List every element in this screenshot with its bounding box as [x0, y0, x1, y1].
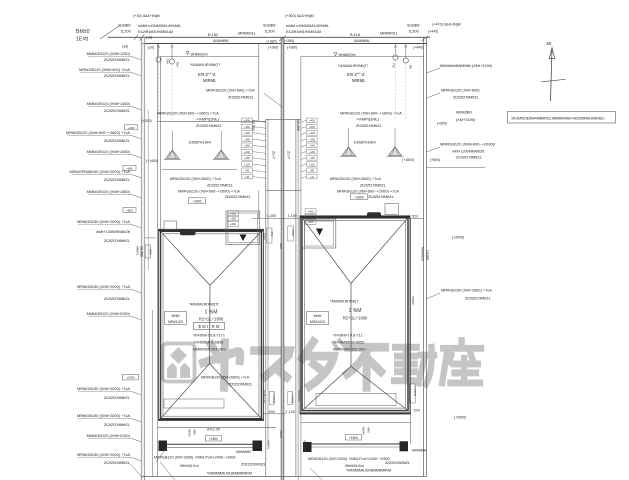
- svg-text:9tM5LMtZ: 9tM5LMtZ: [262, 390, 266, 404]
- svg-text:MR#GB120 (XM+600) +7cA: MR#GB120 (XM+600) +7cA: [206, 88, 255, 93]
- svg-text:Zt2tZt2XtMttZL: Zt2tZt2XtMttZL: [228, 383, 253, 387]
- slope fan symbol 3: [348, 128, 350, 152]
- svg-text:i&I&$M: i&I&$M: [118, 23, 131, 28]
- svg-text:5,200: 5,200: [121, 29, 132, 34]
- svg-text:t9trtMi1/1m: t9trtMi1/1m: [180, 464, 199, 468]
- svg-text:9trtMi2(0m: 9trtMi2(0m: [339, 53, 356, 57]
- svg-text:10,300: 10,300: [251, 120, 255, 131]
- svg-text:$ M t t R M: $ M t t R M: [198, 324, 219, 329]
- svg-text:Zt2tZt2XtMttZL: Zt2tZt2XtMttZL: [104, 296, 131, 301]
- svg-text:+1800: +1800: [193, 199, 202, 203]
- svg-text:+160: +160: [309, 156, 315, 160]
- svg-text:(+30) i&I&+tNjM: (+30) i&I&+tNjM: [133, 14, 160, 18]
- svg-text:MRt#GB150 (XMt+2000) +7cA: MRt#GB150 (XMt+2000) +7cA: [77, 219, 130, 224]
- ramp1 west inner line: [267, 119, 269, 443]
- svg-text:M#t: M#t: [176, 62, 180, 67]
- building 1 outline with hip roof: [159, 229, 264, 420]
- svg-text:+%MPt(ZML): +%MPt(ZML): [356, 117, 380, 122]
- building 2 setback box: [307, 312, 329, 325]
- svg-text:MRt#GB150 (XMt+2600) +7cA: MRt#GB150 (XMt+2600) +7cA: [77, 413, 130, 418]
- svg-text:(±0): (±0): [148, 46, 154, 50]
- svg-text:R2+GL+1800: R2+GL+1800: [343, 316, 368, 321]
- fence strip plot1: [167, 443, 254, 445]
- svg-text:t9trtMi1/4m: t9trtMi1/4m: [345, 464, 364, 468]
- svg-text:(+280): (+280): [284, 39, 294, 43]
- svg-text:Zt2tZt2XtMttZL: Zt2tZt2XtMttZL: [104, 108, 131, 113]
- svg-text:%%ttNt<t 9.8-711: %%ttNt<t 9.8-711: [333, 334, 363, 338]
- utility meter symbol 4: [403, 58, 408, 63]
- building 1 car blob: [180, 229, 196, 235]
- svg-text:+240: +240: [309, 144, 315, 148]
- svg-text:+200: +200: [230, 222, 237, 226]
- boxed +1800 plot1 mid: [189, 198, 206, 204]
- north arrow: [551, 49, 553, 102]
- svg-text:+1800: +1800: [355, 195, 364, 199]
- plot1 west inner line: [157, 44, 159, 477]
- boxed +1800 plot1 bottom: [206, 436, 222, 442]
- svg-text:+40: +40: [310, 175, 315, 179]
- right leader 3: [427, 147, 441, 152]
- ramp1 level label column: [242, 118, 253, 123]
- svg-text:mMt# m0MM0M4-6t%MtL: mMt# m0MM0M4-6t%MtL: [286, 24, 329, 28]
- plot2 west setback line: [300, 57, 302, 477]
- svg-text:%%ttMtMt 6-6855: %%ttMtMt 6-6855: [193, 341, 223, 345]
- svg-text:Zt2tZt2XtMttZL: Zt2tZt2XtMttZL: [104, 422, 131, 427]
- dimension line between plots: [252, 218, 310, 220]
- watermark Yamada Fudosan logo and lettering: [163, 344, 195, 382]
- svg-text:Mt#M: Mt#M: [361, 427, 365, 435]
- svg-text:(±0): (±0): [122, 45, 128, 49]
- svg-text:E42tR1tM1t%MiI&I&t: E42tR1tM1t%MiI&I&t: [286, 30, 322, 34]
- svg-text:MR#GB120 (XM+600~+2000) +7cA: MR#GB120 (XM+600~+2000) +7cA: [178, 188, 240, 193]
- svg-text:(+1800): (+1800): [290, 394, 294, 404]
- svg-text:+700: +700: [270, 230, 274, 237]
- svg-text:#MtM: #MtM: [279, 430, 283, 438]
- svg-text:+%MPt(ZML): +%MPt(ZML): [196, 117, 220, 122]
- svg-text:+200: +200: [244, 150, 250, 154]
- boxed vertical label v700: [267, 228, 272, 243]
- svg-text:MR#GB120 (XM+600~+2000) +7cA: MR#GB120 (XM+600~+2000) +7cA: [337, 188, 399, 193]
- svg-text:i&I&$M: i&I&$M: [263, 23, 276, 28]
- svg-text:E#t Z^°-Z: E#t Z^°-Z: [198, 72, 216, 77]
- svg-text:*MMtMtMtLt0t)tMtMttMtRM: *MMtMtMtLt0t)tMtMttMtRM: [207, 471, 252, 475]
- plot1 lower area line: [158, 426, 276, 428]
- utility meter symbol 1: [156, 57, 161, 62]
- plot1 terrace line: [162, 169, 237, 171]
- plot1 parking south line: [158, 120, 266, 122]
- setback triangle mark plot2: [334, 53, 337, 57]
- svg-text:Zt2tZt2XtMttZL: Zt2tZt2XtMttZL: [465, 296, 492, 301]
- svg-text:+280: +280: [309, 137, 315, 141]
- building 1 porch level labels: [228, 211, 239, 216]
- svg-text:10,300: 10,300: [425, 250, 429, 260]
- boxed +1800 plot2 mid: [351, 194, 368, 200]
- svg-text:(+200): (+200): [142, 119, 152, 123]
- svg-text:i&I&tMt5tL: i&I&tMt5tL: [354, 39, 370, 43]
- svg-text:B.118: B.118: [350, 32, 360, 37]
- vertical boxed label b2 east: [409, 384, 415, 403]
- plot2 east fence line: [410, 218, 412, 444]
- svg-text:MMt#tsNtMtMMttt (XMt+3190): MMt#tsNtMtMMttt (XMt+3190): [440, 63, 493, 68]
- svg-text:2 %M: 2 %M: [349, 308, 362, 314]
- svg-text:Mt: Mt: [547, 41, 553, 46]
- svg-text:+80: +80: [310, 169, 315, 173]
- svg-text:+240: +240: [244, 144, 250, 148]
- svg-text:MRt#GB120 (XMt+600~+1600) +7cA: MRt#GB120 (XMt+600~+1600) +7cA: [66, 130, 130, 135]
- svg-text:MR#GB120 (XM+2020) +MMLt7cA+24: MR#GB120 (XM+2020) +MMLt7cA+2400~+2800: [308, 457, 390, 461]
- svg-text:*i&I&tMLtRXMt(T!: *i&I&tMLtRXMt(T!: [190, 63, 220, 67]
- svg-text:+1800: +1800: [291, 228, 295, 236]
- svg-text:73Kt: 73Kt: [166, 58, 170, 64]
- building 1 setback box: [165, 312, 187, 325]
- ramp top line: [266, 118, 301, 120]
- svg-text:Mt#M: Mt#M: [187, 429, 191, 437]
- svg-text:MMt#GB120 (XMt+1250): MMt#GB120 (XMt+1250): [87, 51, 131, 56]
- svg-text:*4ttMMtLRtXMt(T: *4ttMMtLRtXMt(T: [330, 300, 359, 304]
- boxed vertical label v1800: [288, 226, 293, 241]
- svg-text:(±0): (±0): [146, 36, 152, 40]
- plot1 gb label a leader: [264, 94, 283, 108]
- svg-text:MRt#GB150 (XMt+2200) +7cA: MRt#GB150 (XMt+2200) +7cA: [77, 452, 130, 457]
- svg-text:+360: +360: [309, 125, 315, 129]
- svg-text:*4ttMMtLRtXMt(Tt: *4ttMMtLRtXMt(Tt: [189, 303, 219, 307]
- svg-text:(+1800): (+1800): [413, 387, 417, 397]
- svg-text:Zt2tZt2XtMttZL: Zt2tZt2XtMttZL: [453, 95, 480, 100]
- boxed +1800 plot2 bottom: [346, 435, 362, 441]
- svg-text:Zt2tZt2XtMttZL: Zt2tZt2XtMttZL: [104, 238, 131, 243]
- svg-text:Zt2tZt2XtMttZL: Zt2tZt2XtMttZL: [385, 461, 410, 465]
- svg-text:Zo-7: Zo-7: [272, 151, 276, 159]
- svg-text:+320: +320: [244, 131, 250, 135]
- svg-text:(+800): (+800): [430, 158, 440, 162]
- svg-text:+300: +300: [128, 126, 135, 130]
- svg-text:MMtMtM5L: MMtMtM5L: [420, 247, 424, 262]
- svg-text:+1450: +1450: [126, 376, 135, 380]
- svg-text:(+440): (+440): [428, 30, 438, 34]
- building 1 entry porch box: [226, 211, 260, 245]
- svg-text:wMt+1200MMAtttZtt: wMt+1200MMAtttZtt: [452, 149, 484, 153]
- svg-text:Zt2tZt2XtMttZL: Zt2tZt2XtMttZL: [104, 460, 131, 465]
- svg-text:MMt#GB120 (XMt+1450): MMt#GB120 (XMt+1450): [87, 101, 131, 106]
- svg-text:520: 520: [412, 215, 418, 219]
- ramp2 level label column: [307, 118, 318, 123]
- svg-text:+300: +300: [307, 215, 314, 219]
- corridor vertical boxed label b: [288, 392, 293, 405]
- svg-text:M#: M#: [408, 65, 412, 69]
- svg-text:(+1400): (+1400): [146, 159, 158, 163]
- svg-text:MtM#L: MtM#L: [303, 441, 307, 451]
- boxed vertical label left boundary: [145, 245, 150, 258]
- plot2 lower area line: [301, 421, 411, 423]
- svg-text:+200: +200: [309, 150, 315, 154]
- building 2 outline with hip roof: [300, 216, 410, 414]
- right site boundary double line: [423, 38, 425, 477]
- svg-text:(+600): (+600): [437, 122, 447, 126]
- building 1 annex rect: [164, 399, 224, 408]
- svg-text:Zt2tZt2XtMttZL: Zt2tZt2XtMttZL: [196, 123, 223, 128]
- svg-text:+400: +400: [309, 119, 315, 123]
- svg-text:Zt2tZt2XtMttZL: Zt2tZt2XtMttZL: [225, 194, 252, 199]
- right leader 4: [427, 293, 441, 299]
- building 2 car blob: [367, 212, 381, 218]
- svg-text:1E#tt: 1E#tt: [76, 37, 89, 43]
- building 2 porch level labels: [305, 209, 316, 214]
- svg-text:Zt2tZt2XtMttZL: Zt2tZt2XtMttZL: [228, 95, 255, 100]
- svg-text:+400: +400: [244, 119, 250, 123]
- ramp bottom line: [266, 189, 301, 191]
- svg-text:+400: +400: [126, 166, 133, 170]
- svg-text:Zt2tZt2XtMttZL: Zt2tZt2XtMttZL: [104, 57, 131, 62]
- svg-text:+400: +400: [230, 211, 237, 215]
- svg-text:MtRML: MtRML: [203, 78, 217, 83]
- svg-text:MtM: MtM: [279, 243, 283, 249]
- slope fan symbol 4: [394, 128, 396, 152]
- svg-text:MRt#GPtMM150 (XMt+2000) +7cA: MRt#GPtMM150 (XMt+2000) +7cA: [69, 169, 130, 174]
- svg-text:MtM#L: MtM#L: [267, 441, 271, 451]
- svg-text:*i&I&tMLtRXMt(T!: *i&I&tMLtRXMt(T!: [338, 64, 368, 68]
- svg-text:MMttMtMt 393.26m: MMttMtMt 393.26m: [333, 348, 366, 352]
- ramp1 west outer line: [265, 119, 267, 476]
- svg-text:MMttMtMt 203.26m: MMttMtMt 203.26m: [193, 348, 226, 352]
- svg-text:i&I&$M: i&I&$M: [407, 23, 420, 28]
- svg-text:Zt2tZt2XtMttZL: Zt2tZt2XtMttZL: [356, 123, 383, 128]
- plot1 west lower line: [152, 310, 154, 477]
- boundary tick at center: [279, 36, 286, 42]
- slope fan symbol 2: [220, 131, 222, 155]
- ramp2 east inner line: [295, 119, 297, 476]
- svg-text:M#MtMM: M#MtMM: [412, 449, 427, 453]
- BM leader: [100, 26, 119, 39]
- building 2 entry porch box: [302, 219, 336, 248]
- svg-text:wMt+1300MMAttZtt: wMt+1300MMAttZtt: [96, 229, 131, 234]
- svg-text:Zt2tZt2XtMttZL: Zt2tZt2XtMttZL: [104, 395, 131, 400]
- svg-text:E42tR1tM1t%MiI&I&t: E42tR1tM1t%MiI&I&t: [138, 30, 174, 34]
- svg-text:520: 520: [414, 409, 420, 413]
- bottom leader diagonals: [160, 462, 175, 480]
- svg-text:(XM+3190): (XM+3190): [456, 117, 476, 122]
- svg-text:R2+GL+1800: R2+GL+1800: [199, 317, 224, 322]
- left site boundary double line: [140, 37, 142, 480]
- svg-text:*tMtMi: *tMtMi: [411, 296, 415, 305]
- svg-text:4M0: 4M0: [366, 427, 370, 433]
- svg-text:MMt#GB130 (XMt+1850): MMt#GB130 (XMt+1850): [87, 189, 131, 194]
- svg-text:MR#GB120 (XM+2000) +MMLt7cA+24: MR#GB120 (XM+2000) +MMLt7cA+2400~+2800: [154, 456, 236, 460]
- utility meter symbol 2: [169, 59, 174, 64]
- building 1 boxed application label: [194, 323, 225, 330]
- svg-text:Zt2tZt2XtMttZL: Zt2tZt2XtMttZL: [368, 194, 395, 199]
- svg-text:(+280): (+280): [267, 40, 277, 44]
- building 2 annex rect: [316, 394, 396, 406]
- svg-text:Zt2tZt2XtMttZL: Zt2tZt2XtMttZL: [104, 138, 131, 143]
- svg-text:5,300: 5,300: [265, 29, 276, 34]
- svg-text:+80: +80: [245, 169, 250, 173]
- svg-text:%%ttMtMt M-6055: %%ttMtMt M-6055: [333, 341, 364, 345]
- svg-text:+280: +280: [244, 137, 250, 141]
- fence strip plot2: [312, 443, 400, 445]
- svg-text:1,450: 1,450: [267, 214, 277, 218]
- svg-text:*MMtMtMtLt0t)tMtMttMtRM: *MMtMtMtLt0t)tMtMttMtRM: [346, 468, 391, 472]
- svg-text:+160: +160: [244, 156, 250, 160]
- svg-text:mMt# m0MM0M4-6t%MtL: mMt# m0MM0M4-6t%MtL: [138, 24, 181, 28]
- svg-text:MR#GB120 (XM+600): MR#GB120 (XM+600): [441, 88, 480, 93]
- svg-text:10,300: 10,300: [296, 120, 300, 131]
- svg-text:MRt#GB120 (XMt+600~+2000)t: MRt#GB120 (XMt+600~+2000)t: [440, 142, 496, 147]
- svg-text:450: 450: [269, 410, 275, 414]
- svg-text:Zt2tZt2XtMttZL: Zt2tZt2XtMttZL: [207, 183, 234, 188]
- svg-text:9trtM: 9trtM: [314, 314, 322, 318]
- svg-text:EM30%1AM: EM30%1AM: [354, 140, 376, 145]
- plot1 wall setback line: [160, 56, 258, 58]
- svg-text:MR#GB120 (XM+600~+1600) +7cA: MR#GB120 (XM+600~+1600) +7cA: [157, 111, 219, 116]
- svg-text:Zt2tZt2XtMttZL: Zt2tZt2XtMttZL: [456, 155, 483, 160]
- svg-text:MMt#GB120 (XMt+2250): MMt#GB120 (XMt+2250): [87, 433, 131, 438]
- svg-text:MRtMM1L: MRtMM1L: [238, 31, 257, 36]
- svg-text:(+1800): (+1800): [402, 158, 414, 162]
- svg-text:MR#GB120 (XM+2600) +7cA: MR#GB120 (XM+2600) +7cA: [170, 176, 221, 181]
- svg-text:Zt2tZt2XtMttZL: Zt2tZt2XtMttZL: [104, 177, 131, 182]
- svg-text:B.152: B.152: [208, 32, 218, 37]
- svg-text:73K: 73K: [392, 63, 396, 68]
- svg-text:E#t Z^°-Z: E#t Z^°-Z: [347, 72, 365, 77]
- svg-text:Zt2tZt2XtMttZL: Zt2tZt2XtMttZL: [360, 183, 387, 188]
- svg-text:Mt1tMM2tEttMt4MttMRtZLtttMMitR: Mt1tMM2tEttMt4MttMRtZLtttMMitRMt0t+Mt2Mt…: [512, 116, 605, 120]
- svg-text:+1800: +1800: [349, 436, 358, 440]
- road edge line upper: [108, 36, 430, 38]
- left boxed labels: [125, 125, 138, 130]
- svg-text:M#MtMM: M#MtMM: [236, 450, 251, 454]
- svg-text:1,150: 1,150: [288, 214, 298, 218]
- svg-text:+360: +360: [244, 125, 250, 129]
- svg-text:(+470) i&I&+tNjM: (+470) i&I&+tNjM: [432, 23, 461, 27]
- ramp2 east second line: [297, 119, 299, 480]
- svg-text:MR#1120: MR#1120: [168, 320, 183, 324]
- svg-text:Zt2tZt2XtMttZL: Zt2tZt2XtMttZL: [241, 463, 266, 467]
- plot2 wall setback line: [301, 56, 424, 58]
- svg-text:+1800: +1800: [209, 437, 218, 441]
- svg-text:MRt#GB150 (XMt+2000) +7cA: MRt#GB150 (XMt+2000) +7cA: [77, 386, 130, 391]
- svg-text:MtRML: MtRML: [352, 78, 366, 83]
- corridor connector line: [263, 413, 286, 415]
- svg-text:MtM5L: MtM5L: [136, 246, 140, 256]
- center plot boundary double line: [280, 38, 282, 480]
- svg-text:MR#1000: MR#1000: [310, 320, 325, 324]
- svg-text:MMt#GB120 (XMt+1650): MMt#GB120 (XMt+1650): [87, 149, 131, 154]
- boundary end tick: [134, 35, 138, 41]
- svg-text:4#MtMtZ: 4#MtMtZ: [298, 390, 302, 402]
- svg-text:+120: +120: [309, 162, 315, 166]
- svg-text:+320: +320: [309, 131, 315, 135]
- svg-text:BM±0: BM±0: [76, 29, 90, 35]
- building 1 top-left store box: [164, 221, 177, 230]
- plot1 line to boundary: [145, 237, 156, 239]
- right leader 1: [427, 68, 441, 73]
- svg-text:+800: +800: [126, 208, 133, 212]
- slope fan symbol 1: [171, 131, 173, 155]
- svg-text:+300: +300: [230, 217, 237, 221]
- svg-text:(+300) i&I&+tNjM: (+300) i&I&+tNjM: [285, 14, 314, 18]
- plot1 parking east line: [258, 44, 260, 122]
- svg-text:(+280): (+280): [287, 46, 297, 50]
- svg-text:MRt#GB150 (XMt+2000) +7cA: MRt#GB150 (XMt+2000) +7cA: [77, 284, 130, 289]
- svg-text:MR#GB120 (XM+2600) +7cA: MR#GB120 (XM+2600) +7cA: [330, 176, 381, 181]
- svg-text:+400: +400: [307, 209, 314, 213]
- svg-text:MRt#GB120 (XMt+400) +2cA: MRt#GB120 (XMt+400) +2cA: [79, 67, 130, 72]
- svg-text:+1800: +1800: [148, 247, 152, 255]
- svg-text:9trtMi2(0m: 9trtMi2(0m: [191, 52, 208, 56]
- svg-text:+40: +40: [245, 175, 250, 179]
- right leader 2: [427, 93, 441, 98]
- south site boundary line: [141, 476, 427, 478]
- boundary tick at right: [422, 36, 429, 42]
- building 2 top-right store box: [385, 204, 398, 215]
- svg-text:Zt2tZt2XtMttZL: Zt2tZt2XtMttZL: [104, 73, 131, 78]
- svg-text:(+2500): (+2500): [454, 416, 466, 420]
- svg-text:EM30%1AM: EM30%1AM: [189, 140, 211, 145]
- svg-text:MRtMM1L: MRtMM1L: [380, 31, 399, 36]
- svg-text:(+1800): (+1800): [272, 394, 276, 404]
- svg-text:(+440): (+440): [413, 46, 423, 50]
- svg-text:MR#GB120 (XM+2600) +7cA: MR#GB120 (XM+2600) +7cA: [201, 376, 250, 380]
- svg-text:(+2000): (+2000): [452, 236, 464, 240]
- svg-text:+200: +200: [307, 220, 314, 224]
- svg-text:MMEt$M: MMEt$M: [456, 110, 472, 115]
- setback triangle mark plot1: [186, 52, 189, 56]
- svg-text:9t#M: 9t#M: [262, 233, 266, 240]
- building 2 porch arrow: [316, 229, 323, 236]
- svg-text:i&I&tMt5tL: i&I&tMt5tL: [213, 39, 229, 43]
- svg-text:+120: +120: [244, 162, 250, 166]
- svg-text:Zo-7: Zo-7: [287, 151, 291, 159]
- svg-text:(+280): (+280): [268, 46, 278, 50]
- utility meter symbol 3: [393, 55, 398, 60]
- plot1 west setback line: [159, 57, 161, 232]
- svg-text:4M0: 4M0: [192, 429, 196, 435]
- svg-text:9trtM: 9trtM: [172, 314, 180, 318]
- building 1 porch arrow: [240, 235, 247, 242]
- svg-text:1 %M: 1 %M: [205, 310, 218, 316]
- corridor vertical boxed label a: [269, 392, 274, 405]
- svg-text:MR#GB150 (XM+2600) +7cA: MR#GB150 (XM+2600) +7cA: [441, 288, 492, 293]
- regulation note box: [508, 112, 616, 124]
- svg-text:%%ttNt<t 9.8-7171: %%ttNt<t 9.8-7171: [193, 334, 225, 338]
- svg-text:MMt#GB120 (XMt+2050): MMt#GB120 (XMt+2050): [87, 311, 131, 316]
- svg-text:MR#GB120 (XM+600~+1600) +7cA: MR#GB120 (XM+600~+1600) +7cA: [340, 111, 402, 116]
- svg-text:1,150: 1,150: [286, 410, 296, 414]
- svg-text:A'#1:-50: A'#1:-50: [207, 427, 220, 431]
- road edge line lower (site north boundary): [141, 43, 427, 45]
- right horizontal leader: [427, 167, 485, 169]
- svg-text:5,300: 5,300: [409, 29, 420, 34]
